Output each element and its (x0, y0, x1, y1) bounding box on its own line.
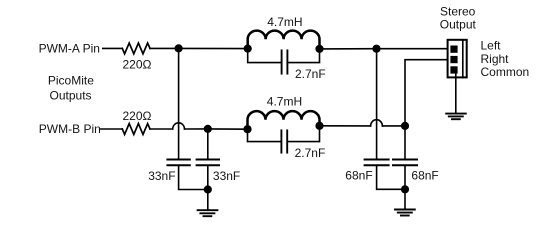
wire C5 to ground rail (377, 166, 405, 189)
svg-text:Outputs: Outputs (50, 89, 92, 103)
node L1 left junction (244, 45, 252, 53)
svg-text:4.7mH: 4.7mH (267, 95, 302, 109)
ground symbol connector (446, 114, 466, 120)
inductor L2 4.7mH (248, 111, 320, 129)
svg-text:220Ω: 220Ω (123, 109, 152, 123)
wire hop over node A2 drop (371, 120, 383, 126)
connector J1 pin 2 (450, 56, 457, 63)
wire node A2 down to C5 (376, 49, 378, 159)
node G2 junction (401, 185, 409, 193)
svg-text:33nF: 33nF (148, 169, 175, 183)
wire hop to node B1 (185, 128, 208, 130)
wire node B2 down to C6 (404, 126, 406, 158)
wire node B1 to L2 (208, 128, 248, 130)
svg-text:2.7nF: 2.7nF (295, 67, 326, 81)
svg-text:PWM-A Pin: PWM-A Pin (39, 42, 100, 56)
connector J1 pin 3 (450, 66, 457, 73)
wire node A1 to L1 (179, 47, 248, 49)
svg-text:Common: Common (481, 65, 530, 79)
node L2 right junction (315, 122, 323, 130)
wire node A2 to connector Left pin (377, 48, 448, 50)
capacitor C5 68nF plates (365, 159, 389, 161)
capacitor C6 68nF plates (393, 159, 417, 161)
wire Common pin to ground (455, 74, 457, 114)
wire node A1 down to C3 (178, 48, 180, 158)
wire hop2 to node B2 (382, 125, 405, 127)
wire PWM-A to R1 (103, 47, 123, 49)
connector J1 pin 1 (450, 46, 457, 53)
capacitor C1 2.7nF wires (248, 49, 320, 63)
svg-text:68nF: 68nF (411, 169, 438, 183)
svg-text:68nF: 68nF (345, 169, 372, 183)
wire G2 to ground (404, 189, 406, 209)
ground symbol right (395, 210, 415, 216)
capacitor C2 plates (280, 130, 282, 152)
svg-text:2.7nF: 2.7nF (295, 146, 326, 160)
connector J1 body (448, 40, 467, 78)
ground symbol left (198, 210, 218, 216)
wire C3 to ground rail (179, 166, 208, 189)
wire L1 to node A2 (320, 48, 377, 50)
inductor L1 4.7mH (248, 31, 320, 49)
svg-text:Output: Output (440, 18, 477, 32)
resistor R1 (122, 43, 150, 54)
node L1 right junction (315, 45, 323, 53)
wire PWM-B to R2 (101, 128, 123, 130)
node G1 junction (204, 185, 212, 193)
wire G1 to ground (207, 190, 209, 210)
node A1 junction (175, 44, 183, 52)
svg-text:PicoMite: PicoMite (48, 74, 94, 88)
svg-text:PWM-B Pin: PWM-B Pin (39, 122, 101, 136)
wire node B1 down to C4 (207, 129, 209, 159)
svg-text:Left: Left (481, 39, 502, 53)
capacitor C4 33nF plates (197, 159, 219, 161)
svg-text:33nF: 33nF (213, 169, 240, 183)
wire hop over node A1 drop (173, 123, 185, 129)
wire R2 to hop (150, 128, 173, 130)
capacitor C1 plates (281, 50, 283, 73)
node L2 left junction (243, 125, 251, 133)
capacitor C3 33nF plates (167, 159, 189, 161)
node B2 junction (401, 122, 409, 130)
svg-text:Stereo: Stereo (440, 4, 476, 18)
connector J1 inner line (462, 40, 464, 78)
wire C6 to ground node G2 (404, 166, 406, 189)
svg-text:220Ω: 220Ω (123, 58, 152, 72)
wire C4 to ground node G1 (207, 166, 209, 189)
node A2 junction (372, 45, 380, 53)
capacitor C2 2.7nF wires (248, 126, 320, 142)
wire R1 to node A1 (150, 47, 179, 49)
node B1 junction (204, 125, 212, 133)
wire node B2 up to Right pin (405, 60, 448, 126)
resistor R2 (122, 124, 150, 135)
svg-text:Right: Right (481, 52, 510, 66)
svg-text:4.7mH: 4.7mH (267, 15, 302, 29)
wire L2 to hop2 (320, 125, 371, 127)
